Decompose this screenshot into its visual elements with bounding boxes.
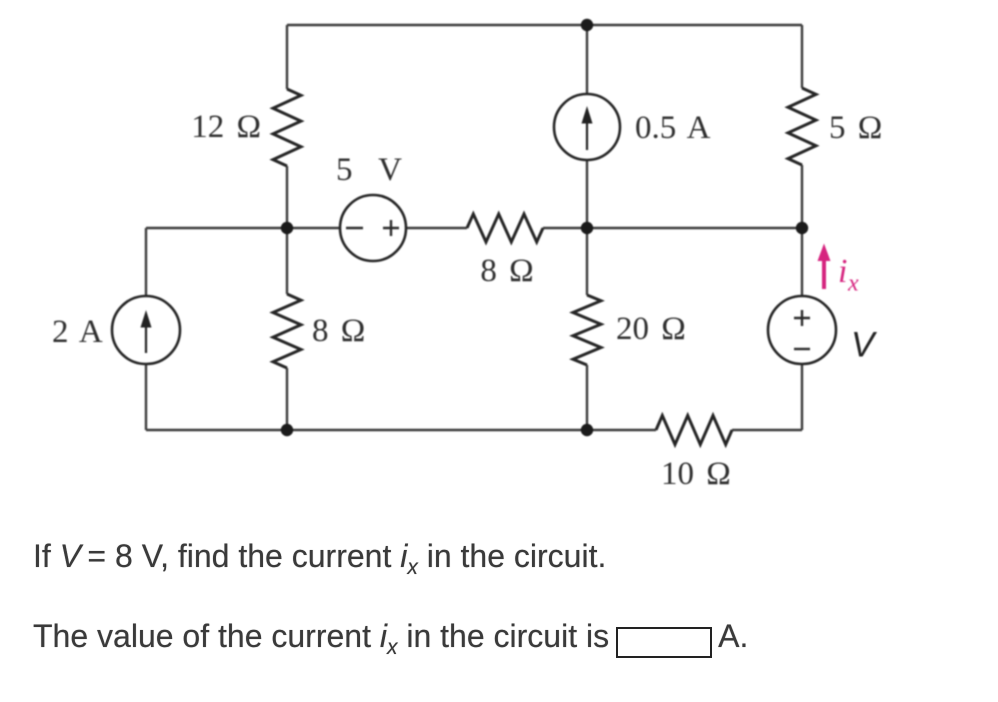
svg-text:V: V	[851, 326, 878, 365]
svg-text:0.5 A: 0.5 A	[635, 110, 711, 146]
svg-text:5 V: 5 V	[336, 152, 409, 188]
svg-text:20 Ω: 20 Ω	[616, 311, 686, 347]
svg-text:x: x	[847, 271, 859, 297]
svg-text:8 Ω: 8 Ω	[312, 313, 365, 349]
svg-text:8 Ω: 8 Ω	[480, 253, 533, 289]
svg-text:5 Ω: 5 Ω	[829, 110, 882, 146]
svg-text:2 A: 2 A	[52, 314, 103, 350]
svg-text:12 Ω: 12 Ω	[191, 109, 261, 145]
svg-text:10 Ω: 10 Ω	[661, 456, 731, 492]
svg-text:i: i	[838, 253, 847, 290]
